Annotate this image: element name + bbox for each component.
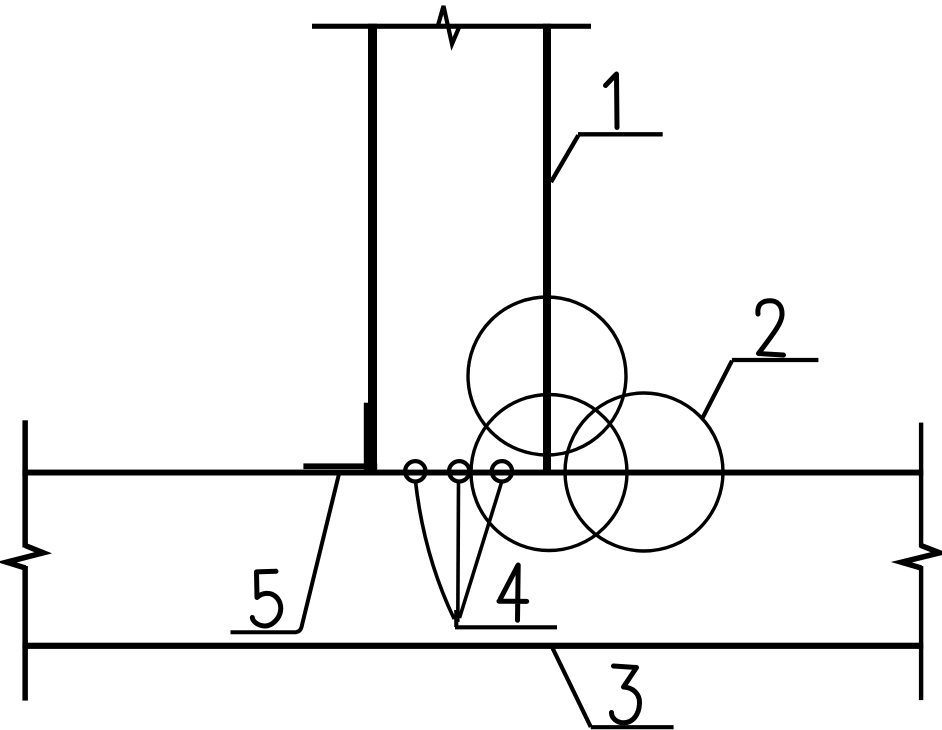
right slab boundary line upper part (919, 423, 923, 548)
bolt circle 3 (item 4) (492, 461, 512, 481)
slab bottom line (item 3 slab) (22, 643, 923, 649)
digit 3 (611, 666, 639, 723)
break symbol on right boundary (901, 546, 939, 569)
leader line label 2 (702, 360, 818, 419)
digit 4 (499, 565, 527, 620)
digit 1 (606, 74, 618, 128)
break symbol on top cut line (438, 6, 460, 44)
slab top line (item 3 slab) (22, 470, 923, 476)
left slab boundary line upper part (22, 420, 28, 547)
leader stub and underline label 4 (455, 610, 557, 627)
weld circle top (item 2) (468, 297, 626, 455)
member web left line (item 1 member, left edge) (368, 24, 377, 473)
connection angle vertical leg (item 5) (364, 403, 369, 470)
bolt circle 2 (item 4) (449, 461, 469, 481)
connection angle horizontal leg (item 5) (303, 463, 377, 469)
top cut line of vertical member (312, 24, 591, 29)
leader line label 1 (551, 134, 663, 182)
left slab boundary line lower part (22, 566, 28, 701)
member web right line (item 1 member, right edge) (543, 24, 551, 470)
right slab boundary line lower part (919, 566, 923, 700)
break symbol on left boundary (7, 546, 44, 569)
digit 2 (758, 301, 784, 355)
bolt leader 2 (item 4) (456, 482, 460, 622)
weld circle right (item 2) (565, 393, 723, 551)
bolt circle 1 (item 4) (405, 461, 425, 481)
bolt leader 3 (item 4) (460, 483, 502, 619)
weld circle middle (item 2) (471, 395, 627, 551)
leader line label 3 (553, 648, 674, 727)
leader line label 5 (231, 475, 339, 633)
bolt leader 1 (item 4) (416, 482, 455, 620)
digit 5 (252, 571, 280, 626)
